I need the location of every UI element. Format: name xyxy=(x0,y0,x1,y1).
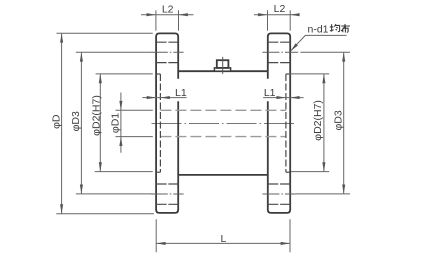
bolt hole right-bottom hidden lines xyxy=(268,183,290,185)
phiD2 left top extension xyxy=(96,73,153,75)
phiD top extension xyxy=(57,32,153,34)
label jun (CJK drawn) xyxy=(330,24,340,32)
dimension L2 right line xyxy=(254,14,297,16)
dimension phiD vertical line xyxy=(61,33,63,214)
dimension phiD2(H7) right vertical line xyxy=(323,74,325,172)
label bu (CJK drawn) xyxy=(341,24,350,33)
svg-text:φD2(H7): φD2(H7) xyxy=(90,95,102,136)
svg-text:φD3: φD3 xyxy=(70,111,82,131)
phiD3 right top extension xyxy=(300,51,350,53)
dimension L extension lines xyxy=(155,219,157,252)
dimension L1 right line xyxy=(263,97,303,99)
right flange F2 outline xyxy=(268,33,290,213)
left recess hidden vertical xyxy=(159,74,161,172)
dimension L2 right extension lines xyxy=(267,10,269,30)
phiD1 top extension xyxy=(116,109,153,111)
svg-text:φD2(H7): φD2(H7) xyxy=(312,100,324,141)
bore hidden line top xyxy=(160,109,286,111)
svg-text:L1: L1 xyxy=(175,87,187,99)
left recess top connector xyxy=(156,73,160,75)
vent bolt nut xyxy=(217,60,229,68)
phiD2 right bottom extension xyxy=(291,171,329,173)
dimension L line xyxy=(156,242,290,244)
bolt hole right-top hidden lines xyxy=(268,41,290,43)
dimension phiD2(H7) left vertical line xyxy=(99,74,101,172)
phiD bottom extension xyxy=(56,213,154,215)
right recess top connector xyxy=(286,73,290,75)
phiD2 right top extension xyxy=(288,73,329,75)
svg-text:L2: L2 xyxy=(162,4,174,16)
svg-text:L: L xyxy=(220,233,226,245)
svg-text:L1: L1 xyxy=(264,87,276,99)
bolt circle centerline right-top xyxy=(262,51,298,53)
phiD3 left top extension xyxy=(76,51,151,53)
left recess bottom connector xyxy=(156,171,160,173)
svg-text:n-d1: n-d1 xyxy=(308,23,329,35)
bolt circle centerline right-bottom xyxy=(262,193,295,195)
dimension phiD1 vertical line xyxy=(120,93,122,153)
phiD3 right bottom extension xyxy=(296,193,351,195)
main horizontal centerline xyxy=(152,123,295,125)
phiD1 bottom extension xyxy=(116,136,153,138)
bolt circle centerline left-top xyxy=(151,51,184,53)
right recess hidden vertical xyxy=(285,74,287,172)
body top edge xyxy=(178,70,268,72)
svg-text:φD3: φD3 xyxy=(332,110,344,130)
leader n-d1 line xyxy=(291,35,347,50)
bolt hole left-top hidden lines xyxy=(156,41,178,43)
vent bolt washer xyxy=(214,68,230,71)
phiD2 left bottom extension xyxy=(95,171,153,173)
dimension L2 left extension lines xyxy=(155,10,157,30)
dimension L1 left line xyxy=(142,97,186,99)
bolt circle centerline left-bottom xyxy=(151,193,184,195)
left flange F1 outline xyxy=(156,33,178,213)
phiD3 left bottom extension xyxy=(76,193,153,195)
bore hidden line bottom xyxy=(160,136,286,138)
bolt hole left-bottom hidden lines xyxy=(156,183,178,185)
vent bolt axis centerline xyxy=(222,57,224,74)
svg-text:φD: φD xyxy=(50,114,62,129)
body bottom edge xyxy=(178,174,268,176)
dimension phiD3 right vertical line xyxy=(343,52,345,194)
right recess bottom connector xyxy=(286,171,290,173)
dimension phiD3 left vertical line xyxy=(80,52,82,194)
dimension L2 left line xyxy=(141,14,194,16)
svg-text:L2: L2 xyxy=(274,3,286,15)
svg-text:φD1: φD1 xyxy=(109,113,121,133)
